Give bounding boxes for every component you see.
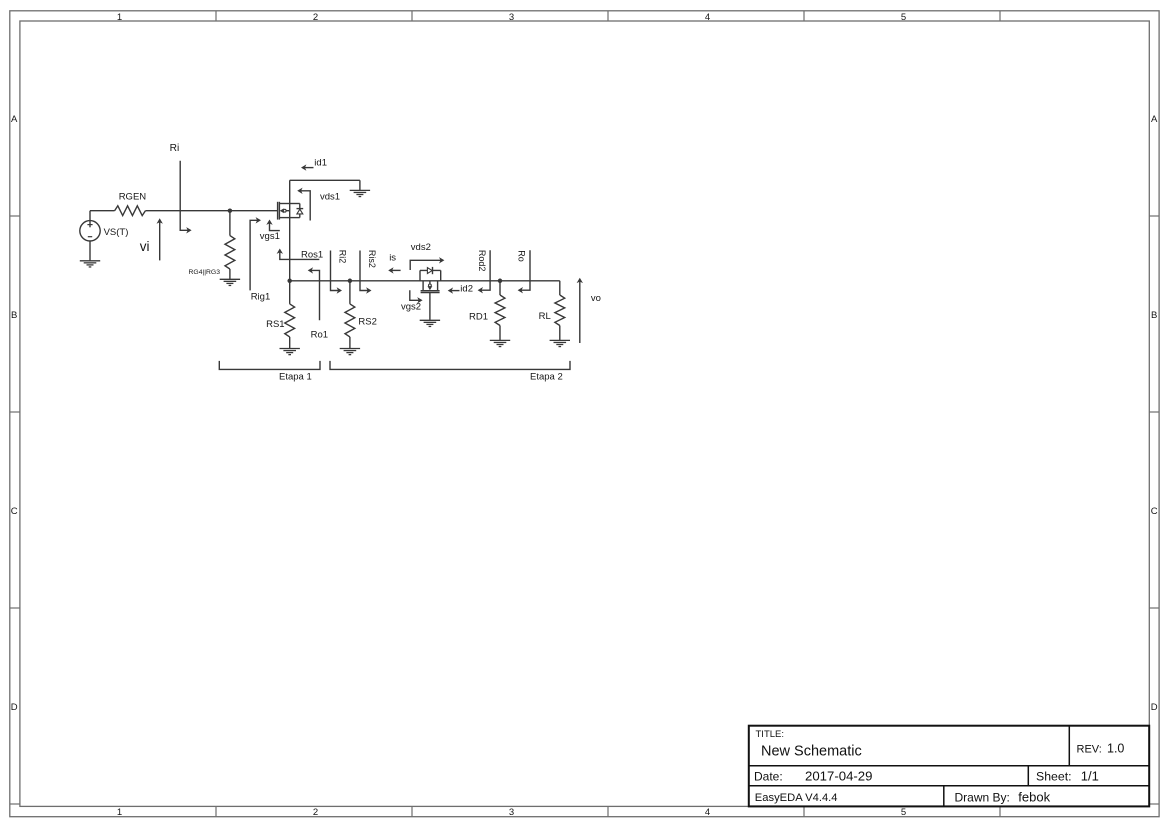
svg-text:VS(T): VS(T) <box>104 227 129 238</box>
svg-text:vds1: vds1 <box>320 192 340 203</box>
svg-text:4: 4 <box>705 807 710 818</box>
svg-text:EasyEDA V4.4.4: EasyEDA V4.4.4 <box>755 792 838 804</box>
svg-text:2017-04-29: 2017-04-29 <box>805 769 872 784</box>
svg-text:REV:: REV: <box>1077 743 1102 755</box>
svg-text:vds2: vds2 <box>411 242 431 253</box>
svg-text:Etapa 2: Etapa 2 <box>530 371 563 382</box>
svg-text:Date:: Date: <box>754 769 783 783</box>
svg-text:is: is <box>389 252 396 263</box>
svg-text:1/1: 1/1 <box>1081 769 1099 784</box>
svg-text:2: 2 <box>313 12 318 23</box>
svg-text:New Schematic: New Schematic <box>761 743 862 759</box>
svg-text:id1: id1 <box>314 158 327 169</box>
svg-text:B: B <box>11 310 17 321</box>
svg-text:A: A <box>1151 114 1158 125</box>
svg-text:Sheet:: Sheet: <box>1036 770 1072 784</box>
svg-text:Rig1: Rig1 <box>251 292 271 303</box>
svg-text:RG4||RG3: RG4||RG3 <box>189 269 221 276</box>
svg-text:RGEN: RGEN <box>119 192 147 203</box>
svg-text:Ros1: Ros1 <box>301 250 323 261</box>
svg-text:4: 4 <box>705 12 710 23</box>
svg-text:1.0: 1.0 <box>1107 742 1124 756</box>
svg-text:vi: vi <box>140 239 150 254</box>
svg-text:Ris2: Ris2 <box>367 250 377 268</box>
svg-text:1: 1 <box>117 12 122 23</box>
svg-text:5: 5 <box>901 807 906 818</box>
svg-text:D: D <box>1151 702 1158 713</box>
svg-text:Drawn By:: Drawn By: <box>955 790 1010 804</box>
svg-text:C: C <box>1151 506 1158 517</box>
svg-text:2: 2 <box>313 807 318 818</box>
svg-text:vgs2: vgs2 <box>401 301 421 312</box>
svg-text:vo: vo <box>591 293 601 304</box>
svg-text:Ri2: Ri2 <box>337 250 347 264</box>
svg-text:A: A <box>11 114 18 125</box>
svg-text:D: D <box>11 702 18 713</box>
svg-text:B: B <box>1151 310 1157 321</box>
svg-text:RS2: RS2 <box>358 317 376 328</box>
svg-text:Ro: Ro <box>517 250 527 262</box>
svg-text:C: C <box>11 506 18 517</box>
svg-text:RD1: RD1 <box>469 311 488 322</box>
svg-text:febok: febok <box>1018 789 1050 804</box>
svg-text:RS1: RS1 <box>266 319 284 330</box>
svg-text:TITLE:: TITLE: <box>756 729 785 740</box>
svg-text:1: 1 <box>117 807 122 818</box>
svg-text:Ro1: Ro1 <box>311 329 328 340</box>
svg-text:3: 3 <box>509 12 514 23</box>
svg-text:Rod2: Rod2 <box>477 250 487 272</box>
svg-text:vgs1: vgs1 <box>260 231 280 242</box>
svg-text:3: 3 <box>509 807 514 818</box>
svg-text:RL: RL <box>539 311 551 322</box>
svg-text:Ri: Ri <box>170 143 180 154</box>
svg-text:id2: id2 <box>460 283 473 294</box>
svg-text:Etapa 1: Etapa 1 <box>279 371 312 382</box>
svg-text:5: 5 <box>901 12 906 23</box>
